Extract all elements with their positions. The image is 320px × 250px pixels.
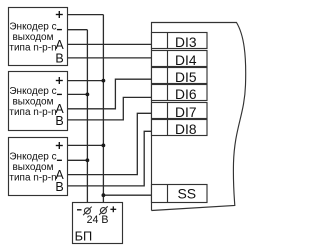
encoder 2 terminal + <box>56 77 63 84</box>
svg-text:24 В: 24 В <box>87 214 109 226</box>
wire enc1 - to 0V bus <box>67 29 87 31</box>
svg-text:B: B <box>55 114 63 128</box>
wires <box>67 15 152 208</box>
controller device outline <box>152 23 246 211</box>
svg-text:типа n-p-n: типа n-p-n <box>9 42 56 53</box>
wire enc3 A to DI7 <box>67 113 152 174</box>
svg-text:DI7: DI7 <box>175 105 196 120</box>
terminal SS <box>152 185 208 203</box>
wire enc2 - <box>67 93 87 95</box>
svg-text:Энкодер с: Энкодер с <box>9 86 56 97</box>
wire 0V bus <box>86 30 88 208</box>
svg-text:Энкодер с: Энкодер с <box>9 21 56 32</box>
junction enc2 + <box>102 79 106 83</box>
wire +24V bus <box>102 15 104 208</box>
encoder 3 terminal - <box>57 159 62 161</box>
junction enc3 + <box>102 144 106 148</box>
terminal DI8 <box>152 120 208 137</box>
svg-text:БП: БП <box>75 228 93 243</box>
wire enc2 A to DI5 <box>67 79 152 109</box>
PSU minus terminal <box>83 207 92 216</box>
encoder 1 box <box>9 8 68 66</box>
terminal DI6 <box>152 85 208 102</box>
svg-text:DI5: DI5 <box>175 70 197 85</box>
wire enc1 B to DI4 <box>67 57 152 59</box>
svg-text:DI8: DI8 <box>175 122 197 137</box>
encoder 2 box <box>9 72 68 131</box>
svg-text:SS: SS <box>177 186 196 202</box>
svg-text:выходом: выходом <box>12 96 53 107</box>
wire enc3 B to DI8 <box>67 131 152 186</box>
wire enc2 + <box>67 80 103 82</box>
svg-text:выходом: выходом <box>12 32 53 43</box>
junction SS feed <box>102 193 106 197</box>
svg-text:A: A <box>55 38 64 52</box>
encoder 3 terminal + <box>56 142 63 149</box>
wire enc3 - <box>67 159 87 161</box>
svg-text:типа n-p-n: типа n-p-n <box>9 173 56 184</box>
encoder 3 box <box>9 138 68 196</box>
svg-text:DI4: DI4 <box>175 53 197 68</box>
svg-text:B: B <box>55 52 63 66</box>
svg-text:DI6: DI6 <box>175 87 197 102</box>
encoder 1 terminal + <box>56 11 63 18</box>
junction enc3 - <box>86 158 90 162</box>
encoder 2 terminal - <box>57 93 62 95</box>
wire enc3 + <box>67 144 103 146</box>
terminal DI3 <box>152 33 208 50</box>
terminal DI4 <box>152 51 208 68</box>
PSU plus terminal <box>99 206 108 215</box>
PSU minus sign <box>77 209 82 211</box>
wire enc1 + to +24V bus <box>67 14 103 16</box>
svg-text:выходом: выходом <box>12 162 53 173</box>
encoder 1 terminal - <box>57 29 62 31</box>
power supply box БП <box>73 203 123 244</box>
PSU plus sign <box>110 206 116 212</box>
terminal DI5 <box>152 68 208 85</box>
wire enc1 A to DI3 <box>67 43 152 45</box>
wire +bus to SS <box>103 194 152 196</box>
svg-text:B: B <box>55 180 63 194</box>
svg-text:Энкодер с: Энкодер с <box>9 152 56 163</box>
terminal DI7 <box>152 103 208 120</box>
wire enc2 B to DI6 <box>67 97 152 120</box>
svg-text:типа n-p-n: типа n-p-n <box>9 107 56 118</box>
junction enc2 - <box>86 93 90 97</box>
svg-text:DI3: DI3 <box>175 35 197 50</box>
